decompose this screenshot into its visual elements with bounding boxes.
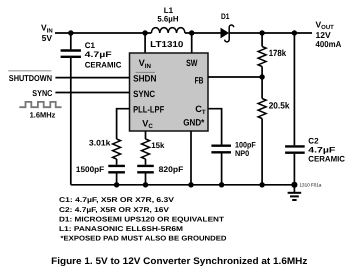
node VIN source label [41,23,53,44]
svg-text:20.5k: 20.5k [269,101,291,111]
capacitor 1500pF [108,166,125,172]
wire 820pF to rail [145,173,147,184]
IC pin label SHDN with overline [133,72,157,83]
wire FB to divider [208,76,262,78]
wire VIN pin into IC [144,33,146,54]
svg-text:SW: SW [186,58,198,68]
inductor L1 [151,28,185,33]
capacitor C1 [61,51,81,57]
wire diode to VOUT [229,32,312,34]
node rail dot ground [291,182,297,188]
op-amp U1 LT1310 IC body [130,53,209,131]
wire VOUT branch upper [293,33,295,145]
wire SW pin into IC [191,33,193,54]
capacitor C1 value label [85,41,122,70]
svg-text:GND*: GND* [183,118,204,128]
capacitor C2 [285,146,305,152]
notes text block [59,197,227,242]
node VIN pin dot [142,30,147,35]
ground [288,185,302,200]
svg-text:L1: PANASONIC ELL6SH-5R6M: L1: PANASONIC ELL6SH-5R6M [59,226,183,233]
diode D1 [221,25,234,42]
wire divider top [261,33,263,47]
svg-text:4.7µF: 4.7µF [308,146,335,155]
wire 100pF to rail [221,153,223,184]
inductor L1 label [157,6,178,23]
svg-text:C1: 4.7µF, X5R OR X7R, 6.3V: C1: 4.7µF, X5R OR X7R, 6.3V [59,197,174,204]
node rail dot 20.5k [259,182,264,187]
wire between divider resistors [261,67,263,99]
node VOUT branch dot [292,30,297,35]
resistor R 178k [258,47,266,67]
wire VC pin down [145,131,147,139]
node rail dot 820pF [143,182,148,187]
svg-text:1500pF: 1500pF [76,165,104,174]
svg-text:820pF: 820pF [159,165,184,174]
wire ground rail [71,184,295,186]
wire top rail left (VIN to inductor) [55,32,151,34]
svg-text:3.01k: 3.01k [89,139,111,148]
svg-text:400mA: 400mA [316,39,342,49]
node VIN junction dot [68,30,73,35]
capacitor 100pF value label [235,140,256,158]
wire 1500pF to rail [116,173,118,184]
capacitor C2 value label [308,137,345,164]
svg-text:SYNC: SYNC [133,89,155,99]
resistor R 3.01k [113,139,121,159]
svg-text:SHDN: SHDN [133,74,157,84]
svg-text:SHUTDOWN: SHUTDOWN [9,73,52,83]
svg-text:NP0: NP0 [235,149,250,158]
wire GND pin down [190,131,192,185]
svg-text:178k: 178k [269,48,287,58]
sync square wave [19,102,61,107]
wire 15k to 820pF [145,159,147,165]
svg-text:Figure 1. 5V to 12V Converter: Figure 1. 5V to 12V Converter Synchroniz… [51,256,308,267]
svg-text:C1: C1 [85,41,96,50]
wire PLL-LPF branch [117,109,130,139]
svg-text:1.6MHz: 1.6MHz [30,111,56,120]
node FB junction dot [259,74,264,79]
node feedback top dot [259,30,264,35]
svg-text:4.7µF: 4.7µF [85,50,112,59]
node rail dot 100pF [219,182,224,187]
node SW dot [189,30,194,35]
svg-text:CERAMIC: CERAMIC [308,155,345,164]
node VOUT label [316,19,342,49]
wire 3.01k to 1500pF [116,159,118,165]
svg-text:C2: 4.7µF, X5R OR X7R, 16V: C2: 4.7µF, X5R OR X7R, 16V [59,207,169,214]
wire SHUTDOWN input [55,77,129,79]
resistor R 20.5k [258,99,266,119]
wire CT branch [208,109,222,145]
svg-text:LT1310: LT1310 [150,39,184,49]
svg-text:FB: FB [195,76,204,86]
svg-text:PLL-LPF: PLL-LPF [133,104,164,114]
capacitor 100pF [211,146,231,153]
capacitor 820pF [137,166,154,172]
resistor R 15k [142,139,150,159]
wire inductor to diode [185,32,221,34]
wire C1 branch lower to ground rail [70,58,72,185]
wire C1 branch upper [70,33,72,49]
svg-text:C2: C2 [308,137,319,146]
node SHUTDOWN label [8,71,52,83]
node rail dot 1500pF [114,182,119,187]
svg-text:*EXPOSED PAD MUST ALSO BE GROU: *EXPOSED PAD MUST ALSO BE GROUNDED [61,236,227,243]
wire SYNC input [55,92,129,94]
svg-text:D1: MICROSEMI UPS120 OR EQUIVA: D1: MICROSEMI UPS120 OR EQUIVALENT [59,216,225,223]
svg-text:15k: 15k [151,141,165,150]
svg-text:1310 F01a: 1310 F01a [300,182,322,187]
svg-text:CERAMIC: CERAMIC [85,60,122,69]
svg-text:SYNC: SYNC [32,88,52,98]
wire C2 to rail [293,154,295,185]
wire 20.5k to rail [261,119,263,185]
svg-text:5V: 5V [42,33,53,43]
node rail dot GND [188,182,193,187]
svg-text:D1: D1 [221,12,230,21]
svg-text:5.6µH: 5.6µH [157,14,178,23]
svg-text:100pF: 100pF [235,140,256,149]
